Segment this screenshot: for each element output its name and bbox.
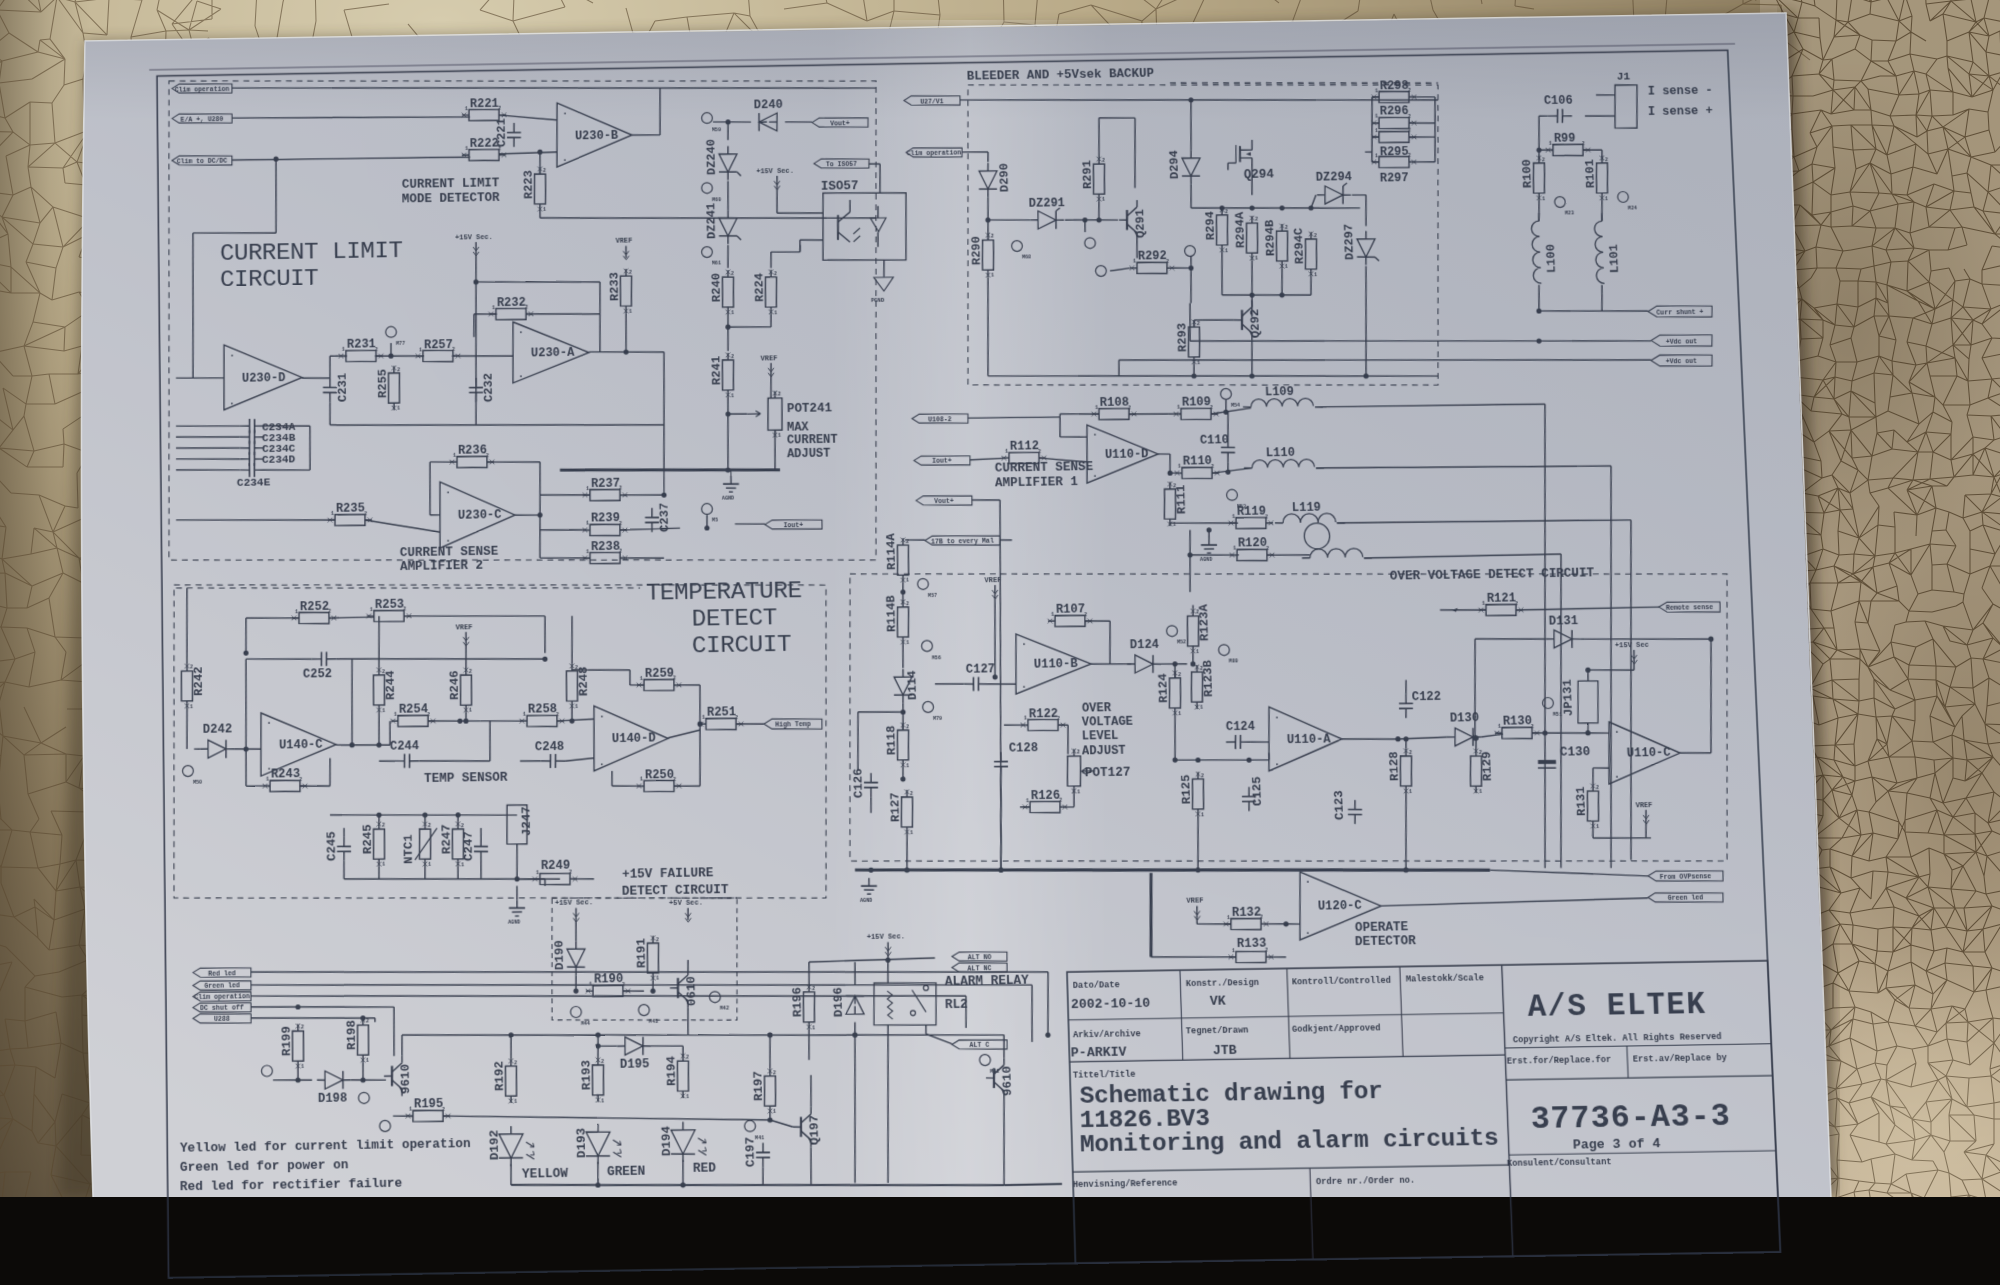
- svg-text:1: 1: [1375, 128, 1378, 134]
- svg-text:1: 1: [1255, 256, 1258, 262]
- wire: [176, 517, 335, 522]
- svg-text:L101: L101: [1607, 244, 1622, 273]
- svg-text:1: 1: [465, 106, 468, 112]
- resistor R127: [901, 797, 914, 827]
- svg-text:R294B: R294B: [1263, 220, 1278, 256]
- svg-text:1: 1: [1375, 88, 1378, 94]
- svg-text:2: 2: [656, 937, 659, 943]
- svg-text:R127: R127: [888, 792, 903, 822]
- node M75: [358, 1092, 369, 1103]
- svg-text:C124: C124: [1226, 719, 1256, 734]
- svg-text:R243: R243: [271, 767, 300, 782]
- diode D130: [1454, 728, 1473, 746]
- svg-text:R198: R198: [344, 1020, 359, 1050]
- svg-text:R235: R235: [336, 501, 365, 516]
- svg-text:2: 2: [906, 724, 909, 730]
- wire: [1169, 523, 1171, 526]
- svg-text:1: 1: [523, 712, 526, 718]
- diode D290: [979, 171, 997, 189]
- title block frame: [1067, 961, 1780, 1264]
- node M56: [922, 640, 933, 651]
- svg-text:PGND: PGND: [871, 297, 885, 304]
- svg-text:C248: C248: [535, 739, 564, 754]
- wire down: [727, 122, 730, 140]
- wire: [232, 156, 470, 161]
- resistor R292: [1137, 262, 1168, 274]
- svg-text:0610: 0610: [684, 976, 699, 1006]
- svg-text:R297: R297: [1380, 171, 1409, 186]
- svg-text:D290: D290: [997, 163, 1012, 192]
- capacitor C125: [1248, 787, 1251, 796]
- potentiometer POT127: [1067, 756, 1082, 786]
- svg-text:M59: M59: [712, 127, 721, 133]
- resistor R194: [677, 1061, 689, 1091]
- resistor R291: [1093, 164, 1106, 194]
- resistor R295: [1379, 131, 1410, 143]
- svg-text:1: 1: [1605, 196, 1608, 202]
- svg-text:Copyright A/S Eltek. All Right: Copyright A/S Eltek. All Rights Reserved: [1513, 1031, 1722, 1045]
- svg-text:1: 1: [1479, 789, 1482, 795]
- svg-text:2: 2: [382, 823, 385, 829]
- net flag +Vdc out 2: [1651, 354, 1713, 367]
- net flag From OVPsense: [1648, 870, 1724, 882]
- capacitor C232: [475, 378, 477, 388]
- svg-text:1: 1: [586, 549, 589, 555]
- svg-text:2: 2: [397, 367, 400, 373]
- svg-text:2: 2: [428, 823, 431, 829]
- svg-text:AMPLIFIER 1: AMPLIFIER 1: [995, 474, 1078, 490]
- svg-text:RED: RED: [693, 1161, 716, 1176]
- svg-text:M79: M79: [933, 716, 942, 722]
- svg-text:R255: R255: [376, 369, 391, 398]
- ISO57 transistor: [837, 215, 838, 240]
- net flag DC shut off: [193, 1002, 251, 1013]
- capacitor C221: [513, 123, 515, 133]
- svg-text:2: 2: [1542, 157, 1545, 163]
- svg-text:1: 1: [629, 309, 632, 315]
- svg-text:·: ·: [562, 108, 568, 119]
- svg-text:Henvisning/Reference: Henvisning/Reference: [1073, 1178, 1178, 1190]
- svg-text:1: 1: [812, 1025, 815, 1031]
- zener DZ291: [1038, 211, 1057, 229]
- svg-text:NTC1: NTC1: [401, 834, 416, 864]
- svg-text:D196: D196: [831, 987, 846, 1017]
- svg-text:C126: C126: [851, 768, 866, 798]
- svg-text:Malestokk/Scale: Malestokk/Scale: [1406, 973, 1484, 985]
- resistor R123B: [1191, 672, 1204, 702]
- svg-text:Red led for rectifier failure: Red led for rectifier failure: [180, 1176, 402, 1194]
- wire feedback to top: [1710, 605, 1713, 639]
- svg-text:1: 1: [1375, 114, 1378, 120]
- svg-text:R233: R233: [607, 272, 622, 301]
- svg-text:1: 1: [514, 1099, 517, 1105]
- svg-text:1: 1: [1177, 405, 1180, 411]
- wire U110C out: [1680, 751, 1711, 754]
- svg-text:·: ·: [229, 350, 235, 361]
- svg-text:R128: R128: [1387, 751, 1402, 781]
- node M42: [709, 991, 720, 1002]
- node M41: [744, 1120, 755, 1131]
- svg-text:·: ·: [1021, 639, 1027, 650]
- svg-text:1: 1: [640, 777, 643, 783]
- node M24: [1617, 192, 1628, 203]
- svg-text:M50: M50: [193, 780, 202, 786]
- svg-text:1: 1: [465, 146, 468, 152]
- svg-text:1: 1: [1409, 789, 1412, 795]
- svg-text:·: ·: [1614, 772, 1621, 783]
- net flag E/A +, U280: [172, 113, 232, 124]
- svg-text:Green led: Green led: [204, 983, 240, 991]
- svg-text:R244: R244: [383, 670, 398, 700]
- svg-text:M24: M24: [1628, 206, 1637, 212]
- capacitor C197: [762, 1143, 764, 1153]
- resistor R294: [1216, 215, 1229, 245]
- svg-text:CURRENT LIMIT: CURRENT LIMIT: [220, 238, 403, 268]
- junction node M77: [388, 353, 393, 358]
- svg-text:R253: R253: [375, 597, 404, 612]
- resistor R129: [1469, 756, 1482, 786]
- resistor R114A: [897, 545, 910, 575]
- svg-text:I sense +: I sense +: [1648, 104, 1713, 119]
- svg-text:17B to every Mal: 17B to every Mal: [931, 537, 994, 545]
- svg-text:1: 1: [1232, 948, 1235, 954]
- resistor R132: [1231, 918, 1262, 930]
- bleeder dashed box: [960, 77, 1449, 392]
- svg-text:2: 2: [778, 392, 781, 398]
- svg-text:C252: C252: [303, 667, 332, 682]
- resistor R258: [527, 715, 557, 727]
- node M43: [638, 1004, 649, 1015]
- svg-text:1: 1: [1201, 812, 1204, 818]
- svg-text:1: 1: [1233, 546, 1236, 552]
- svg-text:2: 2: [514, 1060, 517, 1066]
- svg-text:1: 1: [382, 862, 385, 868]
- svg-text:R129: R129: [1480, 751, 1495, 781]
- svg-text:1: 1: [461, 862, 464, 868]
- svg-text:M43: M43: [649, 1019, 658, 1025]
- wire: [1065, 219, 1118, 221]
- svg-text:9610: 9610: [398, 1064, 413, 1094]
- agnd temp: [516, 886, 518, 900]
- svg-text:1: 1: [731, 393, 734, 399]
- net flag Green led: [193, 980, 251, 991]
- svg-text:RL2: RL2: [945, 997, 968, 1012]
- svg-text:R238: R238: [591, 539, 620, 554]
- svg-text:R232: R232: [497, 295, 526, 310]
- heavy bus agnd: [855, 860, 1490, 881]
- AGND under bus: [730, 476, 732, 484]
- current sense amp2 dashed bottom: [176, 580, 640, 595]
- resistor R121: [1486, 604, 1517, 616]
- net flag Vout+ 2: [916, 495, 972, 506]
- svg-text:R222: R222: [470, 136, 499, 151]
- svg-text:1: 1: [640, 676, 643, 682]
- svg-text:U230-A: U230-A: [531, 346, 575, 361]
- svg-text:R199: R199: [279, 1026, 294, 1056]
- net flag Green led out: [1648, 892, 1724, 903]
- wire: [378, 616, 380, 668]
- svg-text:1: 1: [1232, 514, 1235, 520]
- resistor R233: [620, 276, 632, 306]
- svg-text:MODE DETECTOR: MODE DETECTOR: [402, 190, 500, 206]
- svg-text:R239: R239: [591, 511, 620, 526]
- resistor R294C: [1304, 239, 1317, 269]
- inductor L109: [1251, 398, 1314, 407]
- node M60: [702, 183, 713, 194]
- svg-text:R107: R107: [1056, 602, 1086, 617]
- svg-text:2: 2: [731, 271, 734, 277]
- node M67: [1085, 238, 1096, 249]
- LED D193: [586, 1132, 610, 1157]
- svg-text:1: 1: [409, 1107, 412, 1113]
- svg-text:·: ·: [599, 711, 605, 722]
- svg-text:2: 2: [1178, 672, 1181, 678]
- svg-text:POT241: POT241: [787, 401, 833, 416]
- svg-text:D124: D124: [1130, 637, 1160, 652]
- resistor R122: [1028, 719, 1059, 731]
- svg-text:Tittel/Title: Tittel/Title: [1073, 1070, 1136, 1081]
- svg-text:Remote sense: Remote sense: [1666, 604, 1714, 612]
- wire: [429, 462, 431, 515]
- resistor R294A: [1246, 223, 1259, 253]
- op-amp U110-B: [1014, 633, 1092, 694]
- svg-text:1: 1: [295, 609, 298, 615]
- svg-text:R130: R130: [1503, 714, 1533, 729]
- relay coil: [887, 991, 893, 1019]
- capacitor C110: [1227, 438, 1230, 448]
- svg-text:·: ·: [518, 371, 524, 382]
- svg-text:U27/V1: U27/V1: [920, 98, 944, 105]
- flag To ISO57: [814, 158, 869, 169]
- resistor R108: [1099, 408, 1130, 420]
- junction: [273, 156, 278, 161]
- svg-text:R248: R248: [576, 666, 591, 696]
- op-amp U140-C: [260, 712, 336, 776]
- transistor Q197: [799, 1117, 802, 1137]
- resistor R239: [590, 524, 620, 536]
- agnd ovd: [870, 813, 873, 870]
- svg-text:1: 1: [190, 704, 193, 710]
- failure detect dashed box: [550, 895, 740, 1023]
- svg-text:M60: M60: [712, 197, 721, 203]
- svg-text:2: 2: [1197, 321, 1200, 327]
- net flag Clim operation 3: [193, 991, 251, 1002]
- resistor R257: [423, 350, 453, 362]
- svg-text:2: 2: [1314, 233, 1317, 239]
- net flag Iout+: [765, 519, 822, 530]
- node M48: [979, 1054, 990, 1065]
- svg-text:2: 2: [461, 823, 464, 829]
- svg-text:1: 1: [394, 712, 397, 718]
- diode D131: [1553, 630, 1572, 648]
- inductor L101: [1594, 221, 1604, 284]
- svg-text:JTB: JTB: [1213, 1042, 1238, 1058]
- node M76: [380, 1120, 391, 1131]
- svg-text:L100: L100: [1544, 244, 1559, 273]
- svg-text:AGND: AGND: [860, 898, 872, 904]
- svg-text:1: 1: [382, 708, 385, 714]
- svg-text:ALT NO: ALT NO: [967, 954, 991, 962]
- svg-text:2: 2: [906, 601, 909, 607]
- svg-text:C234E: C234E: [237, 477, 271, 490]
- svg-text:C130: C130: [1560, 745, 1591, 760]
- svg-text:M5: M5: [712, 518, 718, 524]
- wire: [515, 514, 540, 517]
- svg-text:1: 1: [1024, 716, 1027, 722]
- resistor R191: [647, 943, 659, 973]
- svg-text:R197: R197: [751, 1071, 766, 1101]
- wire: [632, 134, 660, 137]
- resistor R236: [457, 456, 487, 468]
- resistor R99: [1553, 144, 1584, 156]
- resistor R297: [1379, 156, 1410, 168]
- svg-text:1: 1: [1285, 264, 1288, 270]
- svg-text:+Vdc out: +Vdc out: [1666, 338, 1698, 346]
- svg-text:U108-2: U108-2: [928, 416, 952, 424]
- zener DZ241: [719, 218, 737, 236]
- resistor R252: [299, 612, 329, 624]
- svg-text:R249: R249: [541, 858, 571, 873]
- tb horizontal dividers: [1068, 1013, 1503, 1020]
- svg-text:Konsulent/Consultant: Konsulent/Consultant: [1507, 1157, 1612, 1169]
- net flag U27/V1: [904, 95, 960, 106]
- svg-text:Vout+: Vout+: [830, 120, 850, 127]
- resistor R254: [398, 715, 428, 727]
- svg-text:VREF: VREF: [1635, 802, 1652, 811]
- net flag 17B to every: [925, 535, 1000, 546]
- svg-text:DETECT: DETECT: [692, 605, 778, 634]
- svg-text:Monitoring and alarm circuits: Monitoring and alarm circuits: [1079, 1124, 1499, 1159]
- node M57: [917, 579, 928, 590]
- svg-text:M44: M44: [581, 1021, 590, 1027]
- svg-text:1: 1: [586, 521, 589, 527]
- ovd dashed box: [843, 560, 1739, 875]
- svg-text:JP131: JP131: [1560, 679, 1576, 716]
- svg-text:J247: J247: [519, 806, 534, 836]
- tb vertical dividers: [1180, 970, 1183, 1060]
- svg-text:Erst.av/Replace by: Erst.av/Replace by: [1633, 1053, 1727, 1065]
- svg-text:D198: D198: [318, 1091, 348, 1106]
- svg-text:M80: M80: [1229, 659, 1238, 665]
- resistor R107: [1055, 615, 1086, 627]
- resistor R199: [292, 1031, 304, 1061]
- temp detect dashed box: [171, 574, 834, 908]
- svg-text:1: 1: [656, 976, 659, 982]
- zener DZ297: [1357, 239, 1376, 258]
- resistor R118: [897, 730, 910, 760]
- svg-text:1: 1: [419, 347, 422, 353]
- svg-text:VREF: VREF: [984, 577, 1001, 585]
- svg-text:1: 1: [1095, 405, 1098, 411]
- svg-text:+Vdc out: +Vdc out: [1666, 358, 1698, 366]
- capacitor C252: [312, 658, 321, 660]
- svg-text:U120-C: U120-C: [1318, 899, 1362, 914]
- svg-text:Vout+: Vout+: [934, 498, 954, 505]
- net flag U108-2: [912, 413, 968, 424]
- wire top: [960, 96, 1191, 104]
- diode D195: [625, 1037, 644, 1055]
- svg-text:R257: R257: [424, 337, 453, 352]
- svg-text:1: 1: [543, 207, 546, 213]
- svg-text:1: 1: [991, 273, 994, 279]
- wire U110A out: [1342, 738, 1398, 740]
- svg-text:1: 1: [774, 310, 777, 316]
- net flag ALT NO: [952, 951, 1007, 962]
- svg-text:Q292: Q292: [1248, 309, 1263, 338]
- svg-text:1: 1: [370, 607, 373, 613]
- wire bus down: [1148, 873, 1153, 957]
- resistor R294B: [1276, 231, 1289, 261]
- svg-text:M52: M52: [1177, 640, 1186, 646]
- svg-text:1: 1: [1196, 649, 1199, 655]
- net flag U288: [193, 1013, 251, 1024]
- resistor R193: [592, 1065, 604, 1095]
- svg-text:Ordre nr./Order no.: Ordre nr./Order no.: [1316, 1175, 1416, 1187]
- bottom rail: [330, 420, 664, 431]
- svg-text:·: ·: [445, 487, 451, 498]
- op-amp U230-C: [439, 481, 516, 548]
- resistor R110: [1182, 467, 1213, 479]
- wires to flags: [1538, 293, 1539, 311]
- connector J1: [1613, 85, 1639, 129]
- svg-text:+15V Sec.: +15V Sec.: [555, 899, 593, 908]
- svg-text:Erst.for/Replace.for: Erst.for/Replace.for: [1507, 1055, 1612, 1067]
- PGND: [874, 277, 894, 291]
- svg-text:R231: R231: [347, 337, 376, 352]
- svg-text:2: 2: [991, 234, 994, 240]
- svg-text:R298: R298: [1380, 79, 1409, 94]
- svg-text:·: ·: [518, 327, 524, 338]
- capacitor C231: [329, 378, 331, 388]
- wires J1: [1585, 115, 1615, 118]
- resistor R238: [590, 552, 620, 564]
- mosfet Q294: [1235, 145, 1236, 163]
- capacitor C124: [1226, 741, 1235, 743]
- inductor L100: [1531, 221, 1541, 284]
- svg-text:R196: R196: [790, 987, 805, 1017]
- svg-text:AGND: AGND: [722, 496, 734, 502]
- svg-text:2: 2: [1605, 157, 1608, 163]
- svg-text:·: ·: [562, 155, 568, 166]
- svg-text:Clim operation: Clim operation: [907, 150, 962, 158]
- wire: [539, 152, 542, 174]
- capacitor C127: [964, 683, 974, 685]
- svg-text:R120: R120: [1238, 536, 1268, 551]
- node M61: [702, 247, 713, 258]
- inductor L110: [1252, 459, 1315, 468]
- diode D294: [1182, 158, 1201, 176]
- node M51: [1542, 697, 1553, 708]
- svg-text:DZ294: DZ294: [1316, 170, 1353, 185]
- svg-text:C247: C247: [461, 831, 476, 861]
- svg-text:+15V Sec.: +15V Sec.: [756, 168, 794, 177]
- wire: [336, 744, 390, 746]
- svg-text:DETECT CIRCUIT: DETECT CIRCUIT: [622, 883, 729, 899]
- resistor R119: [1236, 517, 1267, 529]
- wire: [473, 254, 479, 425]
- resistor R259: [644, 679, 674, 691]
- diode D124: [1134, 655, 1153, 673]
- svg-text:1: 1: [492, 305, 495, 311]
- svg-text:2: 2: [301, 1025, 304, 1031]
- svg-text:1: 1: [686, 1094, 689, 1100]
- long wires vdc: [1190, 333, 1651, 348]
- svg-text:+15V Sec: +15V Sec: [1615, 642, 1649, 651]
- svg-text:·: ·: [1274, 712, 1280, 723]
- wire: [499, 152, 557, 154]
- relay RL2 box: [873, 982, 937, 1026]
- svg-text:R247: R247: [439, 824, 454, 854]
